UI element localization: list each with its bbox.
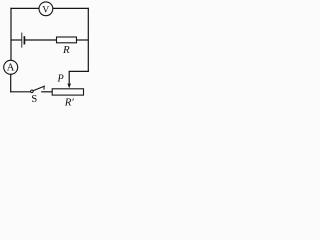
wire bottom to switch xyxy=(11,91,31,93)
ammeter U2 circle xyxy=(4,60,18,74)
svg-text:S: S xyxy=(31,93,37,105)
switch S blade xyxy=(33,86,44,90)
svg-text:R: R xyxy=(62,44,70,56)
wire top-left segment xyxy=(11,7,39,9)
wire top-right segment xyxy=(53,7,89,9)
wire battery to resistor xyxy=(25,39,56,41)
wire switch to rheostat xyxy=(42,91,52,93)
wire left vertical upper xyxy=(10,8,12,60)
battery short thick plate xyxy=(23,37,25,44)
switch S pivot dot xyxy=(31,90,34,93)
wire bend to slider xyxy=(69,71,88,84)
svg-text:A: A xyxy=(7,62,15,74)
svg-text:V: V xyxy=(42,4,49,15)
wire resistor to right vertical xyxy=(77,39,89,41)
voltmeter U1 circle xyxy=(39,2,53,16)
svg-text:P: P xyxy=(56,73,63,84)
switch S right contact tick xyxy=(43,86,45,89)
resistor R box xyxy=(57,37,77,43)
slider arrowhead xyxy=(67,84,71,89)
wire right vertical xyxy=(87,8,89,71)
svg-text:R′: R′ xyxy=(64,97,75,109)
rheostat R' box xyxy=(52,89,83,95)
wire battery left lead xyxy=(11,39,21,41)
battery long plate xyxy=(21,33,23,47)
wire ammeter lower vertical xyxy=(10,74,12,91)
